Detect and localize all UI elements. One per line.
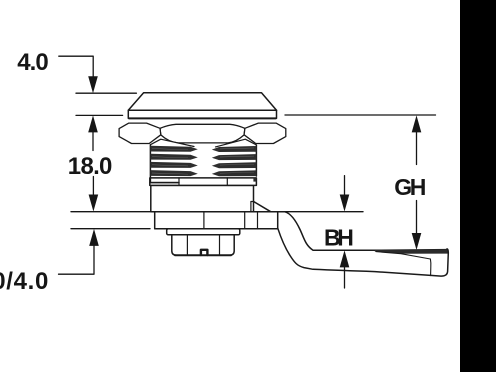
svg-text:4.0: 4.0 — [17, 49, 48, 76]
right extension line at cap — [285, 114, 436, 116]
flange divider 1 — [203, 212, 205, 229]
thread bands left — [150, 146, 197, 176]
thread right edge — [255, 145, 257, 176]
cam blade crease line — [376, 252, 430, 259]
BH dim shaft upper — [344, 176, 346, 195]
flange top edge extended to cam — [155, 211, 285, 213]
cam lever fill — [253, 201, 448, 276]
svg-text:GH: GH — [394, 174, 425, 200]
housing bottom heavy edge — [175, 254, 231, 256]
extension line A left — [71, 211, 150, 213]
black sidebar — [460, 0, 496, 372]
0/4.0 leader shaft — [59, 246, 95, 275]
collar below threads — [150, 178, 257, 186]
housing bottom notch — [201, 250, 208, 255]
arrow up below cap bottom — [88, 115, 98, 132]
18.0 dim shaft lower — [92, 177, 94, 196]
cam pivot diagonal edge — [253, 201, 272, 212]
collar divider left — [150, 178, 179, 186]
cam blade dark top face — [375, 249, 449, 254]
mounting plate row — [167, 229, 240, 235]
thread peak left — [150, 139, 194, 146]
thread bands right — [212, 146, 257, 176]
hex nut left facet — [119, 123, 161, 143]
GH dim shaft lower — [416, 201, 418, 234]
extension line cap bottom left — [76, 114, 123, 116]
cap crease line — [128, 109, 276, 111]
BH arrow up at cam arm — [340, 250, 350, 267]
hex nut right facet — [244, 123, 286, 143]
svg-text:18.0: 18.0 — [68, 153, 112, 180]
thread left edge — [150, 145, 179, 183]
leader 4.0 — [59, 56, 93, 78]
arrow up at line B — [89, 229, 99, 246]
flange divider 2 — [244, 212, 246, 229]
cam outer lower S-bend edge — [278, 228, 431, 275]
svg-text:BH: BH — [324, 224, 353, 250]
body corner notch — [251, 202, 254, 212]
extension line B left — [71, 228, 150, 230]
lock body — [151, 185, 254, 211]
BH dim shaft lower — [344, 267, 346, 288]
housing divider left — [186, 235, 188, 255]
bottom housing — [172, 235, 234, 255]
cam blade end cap — [431, 249, 449, 276]
GH dim shaft upper — [416, 132, 418, 165]
housing divider right — [219, 235, 221, 255]
cap bottom heavy edge — [129, 117, 276, 119]
BH extension line right — [285, 211, 363, 213]
hex nut middle facet — [160, 124, 245, 143]
arrow down at body bottom — [89, 195, 99, 212]
cam blade top edge — [375, 249, 447, 252]
arrow down at cap top — [88, 76, 98, 93]
BH arrow down — [340, 195, 350, 212]
GH arrow up — [412, 115, 422, 132]
18.0 dim shaft upper — [92, 132, 94, 151]
flange row below body — [155, 212, 278, 229]
svg-text:0/4.0: 0/4.0 — [0, 268, 49, 295]
extension line cap top — [76, 92, 136, 94]
cam upper S-bend edge — [285, 212, 375, 250]
collar divider right — [226, 178, 228, 186]
flange divider 3 — [257, 212, 259, 229]
thread peak right — [216, 139, 257, 147]
top cap — [128, 93, 276, 119]
GH arrow down at blade — [412, 233, 422, 250]
dimension graphics — [59, 56, 436, 288]
collar dark mark — [253, 178, 256, 182]
cam blade end cap inner line — [429, 259, 431, 275]
